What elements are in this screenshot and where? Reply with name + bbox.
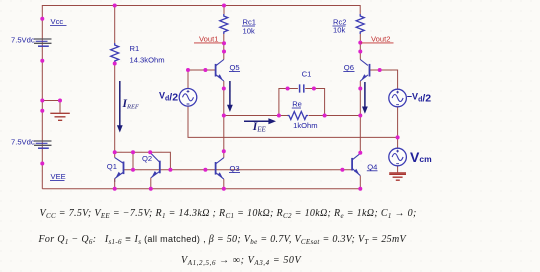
svg-text:7.5Vdc: 7.5Vdc xyxy=(11,36,35,45)
svg-text:C1: C1 xyxy=(302,70,312,79)
svg-text:7.5Vdc: 7.5Vdc xyxy=(11,138,35,147)
svg-text:Vd/2: Vd/2 xyxy=(159,91,178,104)
svg-text:10k: 10k xyxy=(243,27,255,36)
svg-text:10k: 10k xyxy=(333,26,345,35)
svg-text:Vout2: Vout2 xyxy=(371,34,390,43)
svg-text:VCC = 7.5V; VEE = −7.5V; R1 =: VCC = 7.5V; VEE = −7.5V; R1 = 14.3kΩ ; R… xyxy=(40,208,417,220)
svg-text:IEE: IEE xyxy=(252,121,267,134)
svg-text:For Q1 − Q6: Is1-6 ≡ Is (all: For Q1 − Q6: Is1-6 ≡ Is (all matched) , … xyxy=(38,234,408,246)
svg-text:IREF: IREF xyxy=(122,98,140,110)
svg-text:1kOhm: 1kOhm xyxy=(293,121,317,130)
svg-text:Q5: Q5 xyxy=(230,63,240,72)
svg-text:Vcc: Vcc xyxy=(51,17,64,26)
svg-text:R1: R1 xyxy=(130,44,140,53)
svg-text:VA1,2,5,6 → ∞; VA3,4 = 50V: VA1,2,5,6 → ∞; VA3,4 = 50V xyxy=(181,255,303,267)
svg-text:14.3kOhm: 14.3kOhm xyxy=(130,56,165,65)
svg-text:Q1: Q1 xyxy=(107,162,117,171)
svg-text:Rc1: Rc1 xyxy=(243,18,257,27)
svg-text:Q2: Q2 xyxy=(142,154,152,163)
svg-text:VEE: VEE xyxy=(51,172,66,181)
svg-text:Vout1: Vout1 xyxy=(199,34,218,43)
svg-text:Vcm: Vcm xyxy=(410,149,432,165)
svg-text:Q4: Q4 xyxy=(367,162,377,171)
svg-text:−Vd/2: −Vd/2 xyxy=(407,92,431,105)
svg-text:Q3: Q3 xyxy=(230,164,240,173)
svg-text:Q6: Q6 xyxy=(344,63,354,72)
svg-text:Re: Re xyxy=(292,100,302,109)
